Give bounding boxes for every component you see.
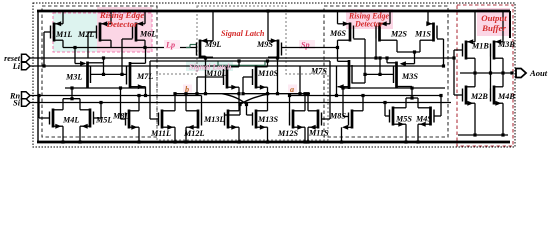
transistor M2S bbox=[376, 11, 407, 42]
wire Lp node from M1L M2L drains bbox=[63, 46, 197, 49]
svg-text:M7L: M7L bbox=[136, 72, 153, 81]
wire y88 left bbox=[65, 87, 146, 89]
transistor M10L bbox=[205, 61, 239, 94]
wire M2S gate to reset bbox=[374, 39, 377, 60]
output buffer Aout marker bbox=[516, 68, 548, 78]
transistor M2L bbox=[77, 11, 111, 48]
junction M7S source on Rn right bbox=[335, 94, 338, 97]
junction M3S gate wire bbox=[378, 73, 381, 76]
junction M7L source on Rn bbox=[144, 94, 147, 97]
transistor M4L bbox=[50, 99, 80, 142]
svg-text:M11S: M11S bbox=[308, 129, 329, 138]
transistor M5L bbox=[80, 99, 112, 142]
junction M3S drain on reset bbox=[385, 56, 388, 59]
svg-text:M6S: M6S bbox=[329, 29, 346, 38]
svg-text:M6L: M6L bbox=[139, 30, 156, 39]
junction M5S source on ground bbox=[404, 140, 407, 143]
VDD rail right stub down bbox=[509, 11, 511, 38]
svg-text:Buffer: Buffer bbox=[481, 23, 506, 33]
pink patch behind a bbox=[288, 85, 297, 93]
transistor M10S bbox=[253, 61, 279, 94]
svg-text:M12S: M12S bbox=[277, 129, 298, 138]
junction M8L drain on Rn bbox=[137, 94, 140, 97]
transistor M8L bbox=[112, 96, 139, 143]
dashed box left Rising Edge Detector bbox=[42, 6, 157, 137]
dashed box Output Buffer bbox=[457, 5, 513, 146]
transistor M3S bbox=[365, 52, 418, 88]
junction M10L source on node b bbox=[237, 92, 240, 95]
svg-text:M2S: M2S bbox=[390, 30, 407, 39]
green stub M9L drain to latch wire bbox=[205, 58, 207, 61]
highlight fill pink behind Output Buffer label bbox=[477, 8, 510, 36]
wire M9S drain to node a bbox=[276, 56, 279, 95]
wire Rn net right bbox=[290, 95, 442, 97]
wire M1S gate to Li bbox=[437, 39, 445, 68]
wire M2S drain jog to join bbox=[390, 40, 397, 52]
wire M5S gate from Si bbox=[383, 101, 389, 116]
wire M1L gate to Li bbox=[42, 32, 50, 68]
transistor M11S bbox=[308, 94, 329, 142]
wire M2L gate to reset bbox=[88, 32, 97, 58]
pink patch behind Lp bbox=[164, 40, 180, 49]
svg-text:Li: Li bbox=[12, 62, 21, 71]
svg-text:M1B: M1B bbox=[471, 42, 489, 51]
wire M5S M4S drain join bbox=[406, 97, 418, 99]
wire node a horizontal bbox=[243, 93, 310, 95]
junction M4S source on ground bbox=[416, 140, 419, 143]
svg-text:Signal Latch: Signal Latch bbox=[221, 29, 265, 38]
junction M9S source on VDD bbox=[266, 9, 269, 12]
transistor M6S bbox=[329, 11, 354, 48]
junction M12S drain on node a bbox=[303, 92, 306, 95]
svg-text:M9S: M9S bbox=[256, 40, 273, 49]
junction gate wire on M6L M7L gate chain bbox=[120, 73, 123, 76]
dashed box Signal Latch stepped outline bbox=[157, 6, 328, 140]
wire vertical from Li to node a region bbox=[298, 66, 301, 95]
transistor M3L bbox=[65, 48, 127, 89]
junction M6S drain on Sp bbox=[336, 46, 339, 49]
wire M9L drain to node b bbox=[200, 56, 207, 95]
junction M12S source on ground bbox=[303, 140, 306, 143]
transistor M8S bbox=[329, 96, 363, 143]
transistor M7L bbox=[127, 48, 154, 96]
wire M10L gate to node b bbox=[195, 77, 223, 95]
junction M10S source on node a bbox=[266, 92, 269, 95]
wire reset net bbox=[31, 57, 455, 59]
cross coupling curve from b to M13S gate bbox=[222, 94, 253, 115]
green Lp wire jog into M9L gate bbox=[186, 45, 197, 48]
svg-text:Si: Si bbox=[13, 98, 21, 107]
highlight fill pink around left Rising Edge Detector label and M6L bbox=[97, 7, 152, 52]
wire M1S drain jog to join bbox=[420, 40, 428, 52]
svg-text:Aout: Aout bbox=[529, 68, 548, 78]
svg-text:M12L: M12L bbox=[183, 129, 204, 138]
svg-text:M10S: M10S bbox=[257, 69, 278, 78]
input buffer Si bbox=[13, 98, 30, 107]
wire M4S gate from Rn right bbox=[434, 94, 443, 116]
cross coupling curve from a to M13L gate bbox=[225, 94, 270, 115]
wire M11S gate to latch y61 wire bbox=[322, 61, 331, 119]
wire M8L gate bbox=[119, 86, 126, 119]
svg-text:M3S: M3S bbox=[401, 72, 418, 81]
outer dotted frame bbox=[33, 3, 515, 147]
junction M5L source on ground bbox=[78, 140, 81, 143]
transistor M4B bbox=[491, 73, 516, 135]
transistor M2B bbox=[463, 73, 489, 135]
svg-text:Sp: Sp bbox=[301, 41, 310, 50]
svg-text:M5S: M5S bbox=[395, 115, 412, 124]
wire M11L gate to latch y61 wire bbox=[150, 61, 159, 119]
transistor M3B bbox=[491, 11, 516, 73]
wire M6S gate to M7S gate bbox=[352, 39, 365, 83]
wire M8S gate bbox=[341, 86, 348, 116]
svg-text:M9L: M9L bbox=[204, 40, 221, 49]
junction M13L source on ground bbox=[237, 140, 240, 143]
junction M13S source on ground bbox=[266, 140, 269, 143]
input buffer reset bbox=[4, 54, 30, 63]
junction M4L source on ground bbox=[61, 140, 64, 143]
junction M3L gate wire bbox=[102, 73, 105, 76]
wire Si net bbox=[31, 102, 452, 104]
input buffer Li bbox=[12, 62, 30, 71]
wire M12S gate from Rn right bbox=[288, 94, 291, 113]
wire output buffer bottom bbox=[458, 133, 508, 136]
wire M4L M5L drain join bbox=[63, 98, 80, 100]
svg-text:M5L: M5L bbox=[95, 116, 112, 125]
wire M3B M4B gate tie bbox=[489, 57, 492, 89]
wire output node horizontal bbox=[460, 71, 514, 74]
junction gate wire on M6S M7S gate chain bbox=[363, 73, 366, 76]
wire M5L gate from Si bbox=[94, 101, 103, 118]
dashed box right Rising Edge Detector bbox=[324, 6, 448, 137]
transistor M5S bbox=[390, 98, 413, 142]
junction M3S gate tap on reset bbox=[378, 56, 381, 59]
ground rail bbox=[37, 141, 510, 144]
svg-text:M1L: M1L bbox=[55, 30, 72, 39]
svg-text:M13L: M13L bbox=[203, 115, 224, 124]
svg-text:Lp: Lp bbox=[165, 41, 175, 50]
svg-text:M11L: M11L bbox=[150, 129, 171, 138]
svg-text:M4L: M4L bbox=[62, 116, 79, 125]
svg-text:M4S: M4S bbox=[415, 115, 432, 124]
wire M12L gate from Rn bbox=[201, 96, 203, 113]
wire M1S M2S drain join bbox=[397, 50, 420, 53]
wire M3S bottom to pair join bbox=[410, 86, 413, 99]
svg-text:M4B: M4B bbox=[497, 92, 515, 101]
pink dashed border of highlight box bbox=[53, 13, 152, 52]
junction M10S drain on latch y61 wire bbox=[266, 59, 269, 62]
wire M10S gate to node a bbox=[241, 77, 252, 95]
svg-text:Signal Latch: Signal Latch bbox=[189, 63, 232, 72]
wire M4L gate from Rn bbox=[37, 94, 49, 118]
wire Rn net left bbox=[31, 95, 202, 97]
wire M1B M2B gate tie bbox=[452, 50, 462, 95]
left vertical bus wire bbox=[37, 11, 39, 142]
transistor M9S bbox=[256, 11, 282, 59]
junction M8L source on ground bbox=[137, 140, 140, 143]
junction M12L drain on node b bbox=[184, 92, 187, 95]
svg-text:M2B: M2B bbox=[470, 92, 488, 101]
transistor M1S bbox=[414, 11, 437, 42]
junction M10L drain on latch y61 wire bbox=[237, 59, 240, 62]
wire node b horizontal bbox=[176, 93, 240, 95]
transistor M13S bbox=[253, 94, 279, 142]
junction M12L source on ground bbox=[184, 140, 187, 143]
junction M11L drain on node b bbox=[173, 92, 176, 95]
wire M3L bottom to pair join bbox=[70, 86, 73, 100]
transistor M12S bbox=[277, 94, 305, 142]
svg-text:M1S: M1S bbox=[414, 30, 431, 39]
transistor M7S bbox=[310, 48, 352, 96]
svg-text:Detector: Detector bbox=[354, 20, 384, 29]
junction M3L drain on reset bbox=[102, 56, 105, 59]
svg-text:M7S: M7S bbox=[310, 67, 327, 76]
input buffer Rn bbox=[9, 91, 30, 100]
transistor M1L bbox=[51, 11, 73, 48]
svg-text:Output: Output bbox=[481, 13, 507, 23]
pink patch behind b bbox=[183, 85, 192, 93]
transistor M13L bbox=[203, 94, 239, 142]
wire Li net bbox=[31, 65, 444, 67]
junction M11S drain on node a bbox=[306, 92, 309, 95]
wire latch internal y61 bbox=[150, 60, 330, 62]
svg-text:Detector: Detector bbox=[106, 19, 138, 29]
highlight fill cyan around M1L M2L bbox=[53, 13, 97, 52]
transistor M1B bbox=[463, 11, 490, 73]
wire Sp node to M9S gate bbox=[282, 47, 338, 49]
highlight fill pink behind right Rising Edge Detector label bbox=[346, 9, 393, 29]
transistor M12L bbox=[183, 94, 204, 142]
transistor M9L bbox=[197, 11, 222, 59]
junction M11S source on ground bbox=[306, 140, 309, 143]
transistor M11L bbox=[150, 94, 175, 142]
svg-text:a: a bbox=[290, 85, 294, 94]
highlight fill cyan behind faint Signal Latch text bbox=[186, 61, 233, 71]
VDD rail bbox=[37, 10, 510, 13]
pink patch behind Sp bbox=[299, 40, 315, 49]
junction M8S source on ground bbox=[340, 140, 343, 143]
junction M8S drain on Rn right bbox=[361, 94, 364, 97]
wire y88 right bbox=[344, 87, 445, 89]
svg-text:M3B: M3B bbox=[497, 40, 515, 49]
green wire latch internal bbox=[218, 61, 265, 65]
transistor M4S bbox=[415, 98, 434, 142]
transistor M6L bbox=[133, 11, 157, 48]
svg-text:M13S: M13S bbox=[257, 115, 278, 124]
wire M6L gate to M7L gate bbox=[122, 39, 133, 74]
junction M11L source on ground bbox=[173, 140, 176, 143]
svg-text:M3L: M3L bbox=[65, 73, 82, 82]
